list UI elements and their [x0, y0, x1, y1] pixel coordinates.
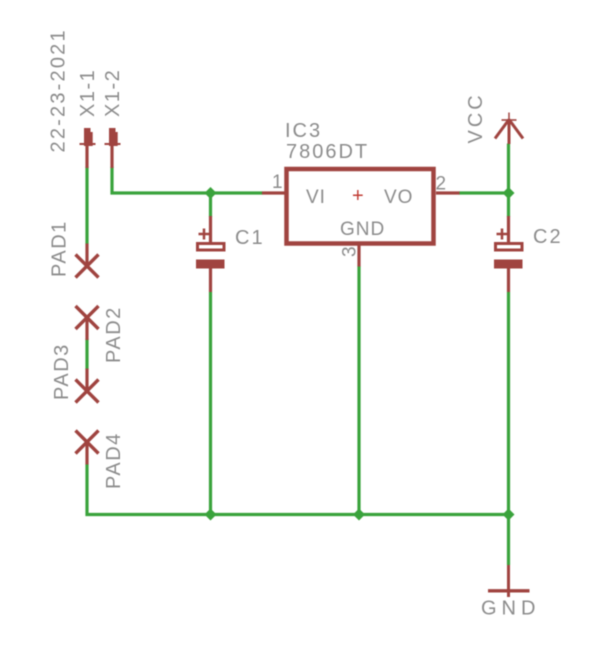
label 7806DT: [286, 141, 369, 163]
label C2: [533, 226, 563, 248]
pin name X1-2: [102, 69, 124, 117]
label VCC: [465, 92, 487, 143]
svg-text:GND: GND: [481, 598, 540, 620]
junction node at VCC/VO: [503, 187, 515, 199]
pin 1 stub VI: [262, 191, 285, 194]
pin label VI: [306, 187, 326, 208]
wire PAD4 down and bottom ground bus: [87, 464, 509, 515]
svg-text:+: +: [352, 185, 364, 207]
svg-text:IC3: IC3: [285, 120, 322, 142]
pin number 2: [436, 174, 447, 195]
svg-text:1: 1: [272, 172, 283, 193]
junction node at C1 top: [205, 187, 217, 199]
pad PAD4: [76, 431, 99, 465]
pin number 3: [340, 246, 361, 257]
svg-text:2: 2: [436, 174, 447, 195]
svg-text:VI: VI: [306, 187, 326, 208]
wire C1 top branch: [209, 193, 212, 217]
wire C1 bottom vertical: [209, 292, 212, 515]
wire C2 bottom to GND junction: [507, 292, 510, 565]
label PAD1: [49, 220, 71, 277]
pad PAD2: [76, 306, 99, 340]
pin X1-2: [105, 128, 121, 168]
voltage regulator IC3 box: [287, 169, 434, 244]
svg-text:PAD3: PAD3: [51, 343, 73, 400]
label X1 value 22-23-2021: [48, 28, 70, 152]
wire IC3 GND pin 3 vertical: [357, 266, 360, 515]
junction node at C1 bottom bus: [205, 509, 217, 521]
wire VCC vertical: [507, 144, 510, 218]
svg-text:C1: C1: [235, 227, 265, 249]
pin X1-1: [80, 128, 96, 168]
pin name X1-1: [77, 69, 99, 117]
pin 2 stub VO: [436, 191, 460, 194]
pad PAD1: [76, 244, 99, 278]
pin label GND: [340, 219, 385, 240]
label PAD2: [103, 306, 125, 363]
wire net VCCIN from X1-2 corner to IC3 VI: [112, 167, 263, 194]
svg-text:VCC: VCC: [465, 92, 487, 143]
pin number 1: [272, 172, 283, 193]
svg-text:3: 3: [340, 246, 361, 257]
label GND: [481, 598, 540, 620]
capacitor C1: [196, 216, 225, 292]
supply symbol GND: [488, 565, 530, 597]
wire IC3 VO to VCC column: [459, 191, 509, 194]
polarity mark +: [352, 185, 364, 207]
supply symbol VCC: [495, 113, 523, 145]
svg-text:VO: VO: [384, 187, 413, 208]
capacitor C2: [494, 216, 523, 292]
label C1: [235, 227, 265, 249]
label PAD3: [51, 343, 73, 400]
junction node at GND bus right: [503, 509, 515, 521]
wire net N$1 vertical from X1-1 to PAD1: [85, 167, 88, 245]
svg-text:PAD2: PAD2: [103, 306, 125, 363]
wire PAD2 to PAD3: [85, 339, 88, 370]
pad PAD3: [76, 369, 99, 403]
pin 3 stub GND: [357, 245, 360, 267]
svg-text:7806DT: 7806DT: [286, 141, 369, 163]
svg-text:22-23-2021: 22-23-2021: [48, 28, 70, 152]
svg-text:C2: C2: [533, 226, 563, 248]
svg-text:PAD1: PAD1: [49, 220, 71, 277]
svg-text:X1-2: X1-2: [102, 69, 124, 117]
svg-text:GND: GND: [340, 219, 385, 240]
label PAD4: [103, 432, 125, 489]
svg-text:X1-1: X1-1: [77, 69, 99, 117]
pin label VO: [384, 187, 413, 208]
junction node at IC3 GND bus: [353, 509, 365, 521]
svg-text:PAD4: PAD4: [103, 432, 125, 489]
label IC3: [285, 120, 322, 142]
